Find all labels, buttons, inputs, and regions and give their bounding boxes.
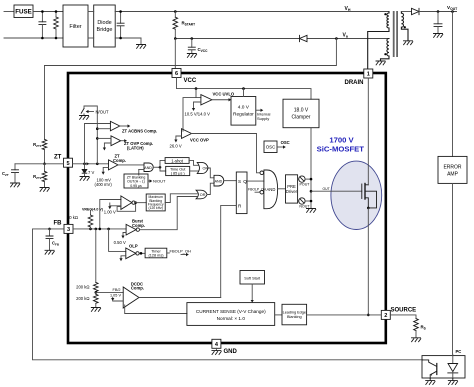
svg-text:Va: Va [343,33,349,39]
node junction cap-res [55,10,58,13]
zener 7V clamp [84,164,86,169]
resistor Rzt1 [42,139,47,149]
clamper 18.0V box [283,99,319,128]
capacitor output [437,12,439,24]
latch SR [236,172,247,214]
wire OR1 to AND small [208,168,214,178]
resistor 200k upper [94,282,99,291]
svg-text:CFB: CFB [52,240,60,246]
capacitor X-cap across line [41,12,43,22]
fuse F1 [14,5,33,18]
wire OVP output to AND gate [192,134,260,173]
svg-text:VH: VH [345,6,351,12]
wire Vout down right side [452,12,454,157]
svg-text:AND: AND [267,187,276,192]
svg-text:(128 ms): (128 ms) [149,254,165,258]
svg-text:OSC: OSC [266,145,276,150]
wire ZT pin rail [73,163,109,165]
svg-text:N/OUT: N/OUT [153,179,166,184]
LED optocoupler [452,354,454,363]
svg-text:FBOLP_OH: FBOLP_OH [170,249,191,254]
oscillator box [264,141,277,153]
svg-text:OUT: OUT [323,187,330,191]
svg-text:7 V: 7 V [88,170,94,175]
polarity dot secondary [404,26,406,28]
pin 1 DRAIN [364,69,373,78]
svg-text:1.05 V: 1.05 V [110,293,121,297]
optocoupler PC box [422,356,465,378]
svg-text:Leading Edge: Leading Edge [283,310,306,314]
svg-text:20 kΩ: 20 kΩ [67,215,78,220]
ground driver rail [307,209,316,213]
wire OSC output arrow [277,146,283,148]
svg-text:Soft Start: Soft Start [244,277,261,281]
IC body outline [68,73,386,343]
arrow N/OUT into blanking [148,180,150,182]
wire one-shot to OR1 [189,160,198,165]
svg-text:VOUT: VOUT [447,5,458,11]
wire ZT divider top resistor [44,66,46,140]
ground divider [91,308,100,312]
comparator DCDC [123,287,139,308]
comparator VCC UVLO [201,95,212,105]
reference arrow 1.05V [113,297,124,301]
ground bridge negative [137,45,146,49]
wire ZT pin external [15,163,64,165]
gate AND small [214,175,224,186]
wire AND zt output node [153,166,160,168]
svg-text:S: S [238,179,241,184]
current sense box [187,303,275,326]
capacitor Cvcc [191,37,194,40]
wire fuse to filter [33,11,63,13]
svg-text:Driver: Driver [286,189,298,194]
comparator Burst [126,224,136,235]
wire burst output to OR2 [140,197,198,230]
svg-text:FUSE: FUSE [15,9,32,16]
svg-text:VCC UVLO: VCC UVLO [213,91,235,96]
transformer T1 secondary winding [401,12,408,41]
time out box [166,166,190,175]
svg-text:(400 mV): (400 mV) [95,182,113,187]
wire FB internal rail [73,228,126,230]
wire FB external loop [33,229,423,360]
svg-text:Filter: Filter [69,24,81,30]
wire AC line input top [4,11,14,13]
pin 4 GND [212,339,221,348]
wire internal supply output [256,109,261,111]
capacitor Cfb [48,228,51,231]
svg-text:1-shot: 1-shot [171,158,183,163]
svg-text:RSTART: RSTART [182,21,196,27]
svg-text:Bridge: Bridge [97,27,113,33]
arrow FBOLP_OH [181,254,186,256]
svg-text:10.5 V/14.0 V: 10.5 V/14.0 V [185,112,211,117]
svg-text:R: R [238,204,242,209]
resistor Rzt2 [44,164,46,172]
wire AND small to latch S [224,180,237,182]
wire source pin external [390,315,416,319]
svg-text:200 kΩ: 200 kΩ [76,284,89,289]
bubble AND top input [260,171,264,175]
svg-text:200 kΩ: 200 kΩ [76,296,89,301]
wire ZT node riser left to ACBNS [85,124,111,164]
hysteresis loop blanking comparator [117,203,136,212]
transformer T1 auxiliary winding [381,39,390,62]
wire bridge negative to ground [115,37,141,39]
wire max blanking to OR2 [165,194,197,203]
svg-text:Comp.: Comp. [113,158,126,163]
svg-text:1700 V: 1700 V [329,136,354,145]
transformer T1 primary winding [368,12,389,70]
wire UVLO output [212,99,229,101]
svg-text:Normal: × 1.0: Normal: × 1.0 [217,316,246,321]
pin 5 ZT [64,158,73,167]
ground Rs [412,338,421,342]
pin 2 SOURCE [381,310,390,319]
ground auxiliary winding [376,61,385,65]
svg-text:1.00 V: 1.00 V [104,210,116,215]
resistor Rs [414,319,419,331]
ground output capacitor [434,34,443,38]
comparator VCC OVP [182,129,192,139]
ground GND pin [215,348,217,350]
wire drain from pin 1 [367,78,369,185]
wire VH rail [115,11,389,13]
svg-text:ZT: ZT [54,155,62,161]
wire current sense feedback to DCDC [125,305,187,314]
diode bridge block [94,5,116,47]
ground LED [452,379,454,381]
wire Va to ZT divider [45,39,337,66]
gate AND zt [144,163,153,172]
transistor NOUT [298,200,299,202]
svg-text:OSC: OSC [281,140,290,145]
wire FB riser to divider [95,229,97,283]
svg-text:AMP: AMP [447,172,459,178]
ground Cfb [45,250,54,254]
svg-text:Regulator: Regulator [233,112,254,118]
pin 3 FB [64,224,73,233]
svg-text:Blanking: Blanking [287,315,302,319]
timer box [145,248,167,258]
pin 6 VCC [172,69,181,78]
wire OUT gate drive [311,190,362,192]
svg-text:6: 6 [175,71,178,77]
gate OR2 [196,190,207,199]
diode output rectifier [412,8,420,14]
comparator ZT ACBNS [110,121,119,131]
svg-text:RZT2: RZT2 [33,174,42,180]
ground Cvcc [187,54,196,58]
wire ACBNS output arrow [120,125,128,127]
MOSFET highlight ellipse [331,161,382,229]
svg-text:2: 2 [384,313,387,319]
wire divider to DCDC comp [96,291,123,293]
svg-text:VCC OVP: VCC OVP [190,137,209,142]
svg-text:N/OUT: N/OUT [96,109,109,114]
switch N/OUT discharge [81,109,84,114]
comparator OLP [126,248,136,259]
wire FB riser to OLP [109,229,126,252]
wire OLP to timer [139,252,145,254]
svg-text:5: 5 [66,161,69,167]
svg-text:DRAIN: DRAIN [345,80,364,86]
svg-text:ERROR: ERROR [443,165,461,171]
reference arrow UVLO threshold [194,102,201,108]
svg-text:Comp.: Comp. [131,286,144,291]
soft start box [240,271,265,285]
comparator blanking 1.00V [121,196,132,210]
svg-text:Supply: Supply [257,116,269,121]
wire LEB to source node [307,314,382,316]
filter block [63,5,88,47]
svg-text:( 85 μs ): ( 85 μs ) [171,172,186,176]
svg-text:AND: AND [215,179,223,183]
svg-text:Comp.: Comp. [132,223,145,228]
svg-text:AND: AND [144,166,152,170]
gate OR1 [197,162,208,173]
svg-text:PC: PC [456,349,462,354]
svg-text:(120 kHz): (120 kHz) [149,206,163,210]
reference arrow OLP [121,256,126,258]
wire FB riser to blanking comparator [100,200,121,229]
svg-text:1: 1 [367,72,370,78]
svg-text:ZT ACBNS Comp.: ZT ACBNS Comp. [122,128,157,133]
wire ZT node riser to N/OUT switch [84,106,97,164]
wire AC line input bottom [4,37,63,39]
wire DCDC output to latch R [139,297,221,299]
reference arrow ZT Comp threshold [103,167,108,171]
svg-text:GND: GND [224,349,238,355]
wire Vout node [419,11,457,13]
svg-text:CURRENT SENSE (V-V Change): CURRENT SENSE (V-V Change) [196,309,266,314]
resistor discharge across line [55,12,57,18]
svg-text:NOUT: NOUT [299,204,310,208]
svg-text:OLP: OLP [129,243,138,248]
ground secondary winding [404,41,413,45]
reference arrow 1.00V [110,203,121,206]
comparator ZT OVP latch [111,136,121,146]
wire comparator to max blanking box [135,202,146,204]
svg-text:OR: OR [203,167,209,171]
wire time out to OR1 [190,170,199,172]
wire ZT OVP output arrow [121,140,125,142]
svg-text:FB/2: FB/2 [113,288,121,292]
wire AND to predriver [278,188,286,190]
gate AND main [264,170,278,209]
wire VCC internal rail [177,78,312,100]
wire UVLO input branch [183,89,201,132]
wire VCC pin feed down [174,39,176,69]
bubble AND bottom input FBOLP [260,190,264,194]
ground zener [80,177,89,181]
wire timer output [167,252,170,254]
svg-text:18.0 V: 18.0 V [294,108,309,114]
svg-text:POUT: POUT [300,182,311,186]
svg-text:RZT1: RZT1 [33,142,42,148]
transformer core [393,11,395,57]
wire latch R input from DCDC [221,205,237,297]
comparator ZT Comp [109,160,119,170]
diode aux rectifier [300,35,308,41]
svg-text:0.95 μs: 0.95 μs [130,184,142,188]
max blanking frequency box [146,194,165,211]
predriver box [286,175,298,203]
svg-text:Clamper: Clamper [292,115,311,121]
svg-text:RS: RS [421,325,426,331]
polarity dot primary [384,13,386,15]
error amplifier box [438,156,467,183]
svg-text:FB: FB [54,221,63,227]
svg-text:4.0 V: 4.0 V [238,105,250,111]
svg-text:26.0 V: 26.0 V [170,143,182,148]
ZT blanking box [124,174,148,188]
transistor Q1 SiC MOSFET [361,184,363,199]
node junction fuse-cap [41,10,44,13]
ground switch [80,116,89,120]
one-shot box [165,158,189,164]
leading edge blanking box [282,304,307,325]
svg-text:OR: OR [200,193,206,197]
svg-text:0.50 V: 0.50 V [114,240,126,245]
reference arrow 0.50V [123,233,126,236]
wire ZT Comp output [118,164,144,166]
node Va junction [335,37,338,40]
ground Czt [11,183,20,187]
svg-text:FBOLP_OH: FBOLP_OH [248,187,267,191]
transistor POUT [298,178,299,180]
capacitor Czt [14,164,16,170]
regulator 4.0V box [231,97,256,126]
svg-text:3: 3 [67,227,70,233]
resistor 200k lower [95,292,97,294]
wire source down [367,208,369,315]
svg-text:Diode: Diode [97,20,111,26]
wire driver output rail [310,128,312,209]
wire OR2 to AND small [207,183,214,194]
wire error amp to optocoupler [452,183,454,354]
svg-text:SOURCE: SOURCE [391,308,417,314]
arrow N/OUT control [89,111,94,113]
wire secondary to output diode [401,11,411,13]
svg-text:Q: Q [243,179,247,184]
svg-text:CVCC: CVCC [198,47,209,53]
svg-text:VREG(4.0 V): VREG(4.0 V) [82,207,104,211]
resistor 20k pullup [90,211,92,215]
ground phototransistor [429,379,431,381]
svg-text:CZT: CZT [2,171,9,177]
phototransistor optocoupler [423,360,437,366]
reference arrow OVP threshold [176,136,182,140]
wire latch Q to AND gate [247,180,264,182]
ground Rzt2 [40,188,49,192]
svg-text:SiC-MOSFET: SiC-MOSFET [317,144,365,153]
wire Va / VCC feed line [175,38,298,40]
svg-text:(LATCH): (LATCH) [127,146,144,151]
wire soft start arrow [251,284,253,300]
wire current sense to LEB [275,314,282,316]
polarity dot auxiliary [384,53,386,55]
capacitor bulk DC [120,12,122,24]
reference arrow ZT OVP [104,143,111,148]
svg-text:VCC: VCC [184,78,197,84]
resistor Rstart [174,10,177,13]
